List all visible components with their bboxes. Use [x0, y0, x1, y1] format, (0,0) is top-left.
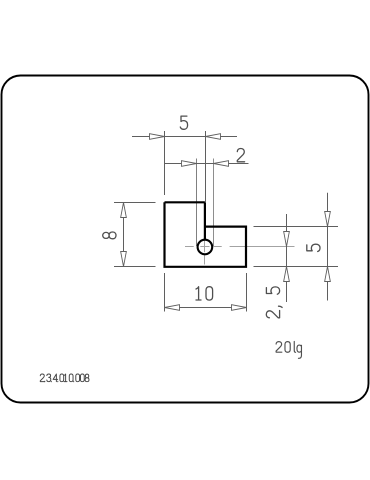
- dim text 5 right: [307, 244, 320, 251]
- extension line hole left tangent (x=196.5): [196, 159, 198, 247]
- dimension line 2 (y=163.5): [165, 163, 249, 165]
- centerline vertical below hole: [204, 241, 206, 265]
- dimension line 5 top (y=136.5): [132, 136, 237, 138]
- arrow 5-right bottom: [325, 267, 331, 282]
- hole circle: [198, 240, 213, 255]
- arrow 8 top: [121, 203, 127, 218]
- note text 20lg: [276, 341, 301, 358]
- arrow 10 left: [165, 305, 180, 311]
- dim text 2: [237, 149, 244, 162]
- arrow 5-right top: [325, 212, 331, 227]
- drawing number 2.3.4.010.008: [40, 374, 89, 382]
- dim text 2,5: [266, 287, 282, 318]
- extension line hole right tangent (x=213.5): [213, 159, 215, 247]
- drawing sheet frame: [2, 76, 369, 403]
- extension line left edge (x=164.5) above part: [164, 131, 166, 195]
- extension line below part right (x=246.5): [246, 273, 248, 312]
- extension line top of part (y=202.5) left side: [114, 202, 156, 204]
- arrow 10 right: [232, 305, 247, 311]
- arrow 2 right: [214, 161, 229, 167]
- arrow 8 bottom: [121, 252, 127, 267]
- arrow 5-top right: [206, 134, 221, 140]
- extension line from part corner (x=205.5) above part: [205, 131, 207, 202]
- part outline L-shape: [165, 202, 247, 266]
- dimension line 2,5 (x=286.5): [286, 214, 288, 302]
- arrow 2 left: [182, 161, 197, 167]
- extension line step edge right (y=226.5): [254, 226, 339, 228]
- arrow 2,5 top: [284, 232, 290, 247]
- dimension line 5 right (x=327.5): [327, 193, 329, 301]
- extension line bottom edge right (y=266.5): [254, 266, 339, 268]
- dimension line 8 (x=123.5): [123, 203, 125, 267]
- extension line bottom of part (y=266.5) left side: [114, 266, 156, 268]
- extension line below part left (x=164.5): [164, 273, 166, 312]
- centerline horizontal through hole: [185, 246, 295, 248]
- dimension line 10 (y=307.5): [165, 307, 247, 309]
- dim text 5 top: [180, 116, 187, 129]
- arrow 5-top left: [150, 134, 165, 140]
- dim text 8: [103, 232, 116, 239]
- arrow 2,5 bottom: [284, 267, 290, 282]
- dim text 10: [196, 287, 213, 300]
